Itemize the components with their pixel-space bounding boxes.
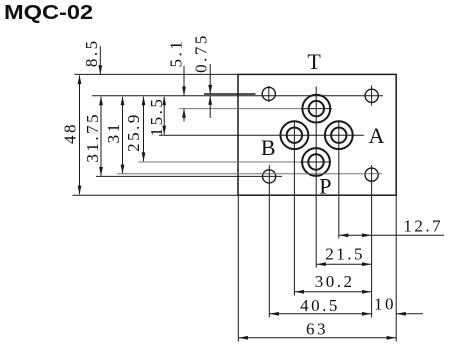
svg-text:T: T bbox=[307, 49, 321, 74]
svg-text:15.5: 15.5 bbox=[147, 97, 166, 137]
svg-text:A: A bbox=[369, 123, 385, 148]
svg-text:12.7: 12.7 bbox=[403, 217, 443, 236]
svg-text:48: 48 bbox=[61, 122, 80, 144]
svg-text:10: 10 bbox=[374, 295, 396, 314]
svg-text:31: 31 bbox=[104, 121, 123, 143]
svg-text:8.5: 8.5 bbox=[82, 38, 101, 67]
svg-text:B: B bbox=[261, 135, 276, 160]
svg-text:21.5: 21.5 bbox=[325, 245, 365, 264]
svg-text:0.75: 0.75 bbox=[191, 33, 210, 73]
svg-text:5.1: 5.1 bbox=[166, 39, 185, 68]
svg-text:31.75: 31.75 bbox=[83, 112, 102, 163]
svg-text:25.9: 25.9 bbox=[124, 112, 143, 152]
svg-text:40.5: 40.5 bbox=[300, 296, 340, 315]
svg-text:30.2: 30.2 bbox=[315, 272, 355, 291]
svg-text:P: P bbox=[319, 174, 331, 199]
svg-text:63: 63 bbox=[306, 320, 328, 339]
